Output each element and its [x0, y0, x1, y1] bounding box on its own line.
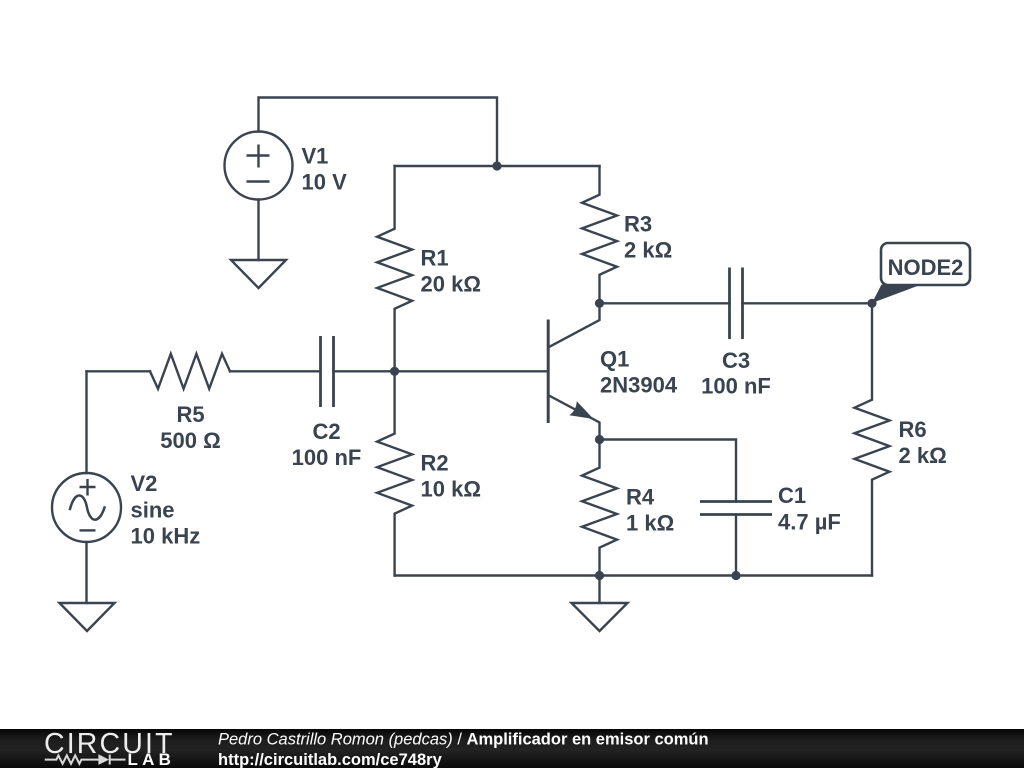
node at collector / C3: [595, 299, 604, 308]
svg-text:C3: C3: [722, 348, 750, 373]
svg-text:V1: V1: [302, 144, 329, 169]
node at emitter / R4: [595, 435, 604, 444]
transistor Q1: [548, 303, 599, 439]
CircuitLab logo resistor-diode glyph: [45, 755, 126, 765]
voltage source V2: [52, 371, 121, 603]
svg-text:R3: R3: [624, 212, 652, 237]
capacitor C1: [700, 502, 772, 515]
resistor R2: [377, 371, 412, 575]
wire C3 output: R3 node to left plate: [600, 302, 730, 304]
svg-text:4.7 µF: 4.7 µF: [778, 510, 841, 535]
node at top rail junction: [492, 161, 501, 170]
svg-text:Q1: Q1: [600, 347, 629, 372]
resistor R6: [855, 303, 890, 575]
svg-text:100 nF: 100 nF: [292, 445, 362, 470]
node at C1 bottom: [731, 571, 740, 580]
svg-text:NODE2: NODE2: [888, 255, 964, 280]
voltage source V1: [225, 132, 293, 261]
svg-text:Pedro Castrillo Romon (pedcas): Pedro Castrillo Romon (pedcas) / Amplifi…: [218, 731, 709, 749]
svg-text:R5: R5: [176, 402, 204, 427]
resistor R5: [150, 354, 230, 389]
ground below V1: [231, 260, 286, 288]
svg-text:R4: R4: [626, 485, 655, 510]
svg-text:500 Ω: 500 Ω: [160, 428, 220, 453]
wire emitter node to C1: [600, 440, 737, 502]
wire R5 to C2: [230, 370, 321, 372]
svg-text:R1: R1: [421, 246, 449, 271]
flag NODE2: [872, 243, 970, 303]
svg-text:2 kΩ: 2 kΩ: [899, 443, 947, 468]
resistor R3: [582, 166, 617, 303]
wire C3 right plate to NODE2: [743, 302, 873, 304]
wire C1 to bottom rail: [735, 515, 737, 576]
resistor R1: [377, 166, 412, 371]
resistor R4: [582, 440, 617, 576]
svg-text:2 kΩ: 2 kΩ: [624, 238, 672, 263]
svg-text:sine: sine: [131, 498, 175, 523]
capacitor C3: [730, 268, 743, 340]
node at NODE2: [867, 299, 876, 308]
svg-text:2N3904: 2N3904: [600, 373, 678, 398]
wire top rail from V1 to corner: [259, 98, 498, 167]
capacitor C2: [321, 336, 334, 407]
svg-text:http://circuitlab.com/ce748ry: http://circuitlab.com/ce748ry: [218, 751, 443, 768]
wire C2 to Q1 base: [334, 370, 549, 372]
svg-text:10 kΩ: 10 kΩ: [421, 477, 481, 502]
svg-text:V2: V2: [131, 471, 158, 496]
wire bottom rail: [395, 574, 872, 576]
node at Q1 base junction: [390, 367, 399, 376]
svg-text:C1: C1: [778, 483, 806, 508]
wire second rail R1 to R3: [395, 165, 600, 167]
ground below V2: [60, 603, 115, 631]
svg-text:R2: R2: [421, 451, 449, 476]
svg-text:R6: R6: [899, 417, 927, 442]
svg-text:20 kΩ: 20 kΩ: [421, 272, 481, 297]
svg-text:1 kΩ: 1 kΩ: [626, 511, 674, 536]
node at R4 bottom / ground: [595, 571, 604, 580]
svg-text:LAB: LAB: [128, 750, 174, 768]
svg-text:10 kHz: 10 kHz: [131, 524, 201, 549]
wire mid rail V2 to Q1 base : segment left of R5: [87, 370, 151, 372]
svg-text:100 nF: 100 nF: [701, 374, 771, 399]
emitter arrow of Q1: [569, 401, 593, 419]
svg-text:10 V: 10 V: [302, 170, 348, 195]
ground below R4: [572, 576, 628, 632]
svg-text:C2: C2: [312, 419, 340, 444]
